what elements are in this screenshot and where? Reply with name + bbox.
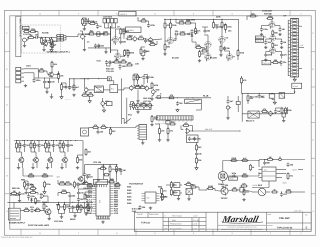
transistor TR1	[42, 40, 47, 46]
resistor R85	[29, 189, 36, 194]
resistor R35b	[73, 84, 80, 91]
capacitor CA1	[48, 39, 55, 43]
svg-text:1M: 1M	[269, 156, 272, 159]
resistor R63	[85, 148, 92, 155]
capacitor C5	[144, 39, 153, 43]
ground O2	[187, 195, 190, 201]
label D2x	[262, 10, 273, 13]
resistor RD3	[272, 42, 279, 48]
resistor R9	[120, 28, 128, 35]
resistor R69	[109, 166, 116, 173]
diode D1a	[187, 33, 191, 36]
potentiometer VRA1	[50, 43, 55, 48]
resistor R81	[250, 164, 256, 171]
connector ladder CON2	[288, 19, 298, 78]
svg-text:C1 470p: C1 470p	[23, 33, 32, 36]
transistor TR2	[48, 71, 54, 78]
relay RL2	[185, 97, 202, 104]
supply label I	[56, 176, 61, 179]
capacitor C40b	[71, 205, 78, 209]
parts J right	[110, 178, 121, 186]
label C4x	[196, 32, 199, 35]
issue box	[303, 214, 311, 230]
resistor R38	[126, 61, 133, 66]
ground tri A	[50, 48, 53, 51]
resistor R71	[108, 178, 115, 183]
svg-text:PRE AMP: PRE AMP	[279, 217, 290, 220]
resistor RO1	[170, 181, 177, 188]
capacitor C26 stage2	[38, 143, 45, 147]
potentiometer VRF6	[136, 102, 146, 109]
valve V2b	[205, 41, 212, 49]
wire R4 tops	[83, 18, 87, 28]
label M8x	[56, 204, 71, 207]
svg-text:TVP4.10-60-02 ISS E PRE AMP: TVP4.10-60-02 ISS E PRE AMP 1/1	[1, 236, 34, 239]
wire RV loop top	[223, 160, 260, 171]
resistor R97	[162, 193, 169, 200]
capacitor CH3	[274, 109, 280, 113]
wire F vol	[103, 98, 107, 109]
label C6x	[228, 30, 232, 33]
resistor R16	[164, 43, 171, 50]
valve V2c	[205, 54, 212, 62]
wire M top3	[75, 184, 94, 189]
svg-text:ECC83: ECC83	[210, 57, 217, 60]
transistor TR9	[220, 186, 228, 195]
svg-text:100n: 100n	[263, 28, 268, 31]
capacitor C4	[119, 40, 126, 44]
capacitor C6b	[94, 44, 100, 48]
svg-text:R56 10k: R56 10k	[143, 97, 152, 100]
valve V3b	[226, 54, 233, 62]
capacitor C14	[48, 80, 55, 84]
resistor RM1	[29, 185, 36, 190]
svg-text:1M: 1M	[147, 50, 150, 53]
resistor R93	[77, 204, 85, 211]
label F2x	[135, 63, 140, 66]
resistor RH6	[285, 107, 293, 114]
ground F mid1	[136, 90, 139, 103]
ground tri F1	[88, 100, 91, 103]
capacitor CF5	[140, 103, 149, 107]
label C5x	[216, 16, 221, 19]
connector CON3	[16, 67, 24, 83]
capacitor C12c	[280, 40, 286, 44]
parts B right low	[140, 47, 150, 60]
resistor RF6	[134, 84, 141, 89]
label F4x	[128, 114, 133, 117]
output jack J3P	[252, 188, 270, 196]
resistor R82	[240, 182, 247, 187]
label H4x	[246, 120, 255, 123]
label M9x	[28, 224, 50, 227]
wire stack A out	[52, 36, 78, 40]
footswitch box J	[93, 179, 107, 184]
capacitor CH1	[280, 60, 287, 64]
capacitor C12b	[264, 40, 271, 44]
svg-text:RELAY 3: RELAY 3	[246, 120, 255, 123]
label F3x	[106, 68, 115, 74]
resistor R28	[237, 49, 245, 56]
resistor R78	[230, 157, 237, 162]
label G2x	[203, 95, 209, 98]
IC4 microcontroller	[93, 182, 114, 216]
label J1x	[93, 161, 102, 164]
resistor R17	[178, 19, 185, 24]
svg-text:1M: 1M	[283, 41, 286, 44]
wire H rail	[242, 93, 295, 94]
wire F boxes	[103, 79, 113, 90]
parts O left	[158, 186, 167, 202]
resistor R5	[85, 18, 92, 25]
resistor RM4	[35, 197, 42, 204]
dark box J	[81, 128, 89, 136]
resistor RD1	[249, 12, 256, 17]
label F5x	[143, 97, 152, 103]
svg-text:TIP32C: TIP32C	[221, 197, 228, 200]
capacitor C9a	[216, 25, 225, 29]
resistor R21	[195, 44, 202, 49]
capacitor C3	[99, 32, 106, 36]
ground under C12d	[264, 58, 267, 61]
resistor R20	[195, 27, 202, 34]
potentiometer VR3b	[149, 37, 154, 43]
label B3	[129, 35, 134, 38]
resistor R14	[127, 49, 135, 56]
wire O mid	[184, 185, 202, 191]
opto coupler box	[94, 86, 103, 93]
svg-text:NOTE 1: NOTE 1	[121, 13, 128, 16]
capacitor C20	[176, 101, 183, 105]
wire C right	[213, 19, 239, 60]
bus dark vertical	[110, 26, 112, 53]
wire V4b legs	[264, 37, 282, 40]
ground J1	[83, 177, 86, 184]
resistor R92	[64, 203, 70, 210]
resistor RH5	[281, 107, 288, 114]
capacitor CB2	[147, 23, 156, 27]
capacitor CM2	[18, 191, 25, 195]
wire C extra	[202, 27, 208, 29]
wire K in	[155, 124, 168, 139]
potentiometer VRF5	[101, 100, 110, 106]
ground stage1	[17, 166, 20, 169]
svg-text:C31 47u: C31 47u	[106, 70, 115, 73]
svg-text:T.03.97: T.03.97	[137, 213, 143, 216]
capacitor C27 stage3	[52, 143, 59, 147]
svg-text:100n: 100n	[180, 30, 185, 33]
capacitor C35	[222, 183, 229, 187]
wire RL2 out	[196, 103, 201, 110]
capacitor CC1	[204, 29, 211, 33]
ground tri F2	[102, 109, 105, 112]
ground F mid2	[150, 94, 153, 101]
box H2	[279, 93, 285, 99]
ground R73	[166, 139, 169, 142]
wire F mid right	[118, 88, 152, 90]
parts P left	[242, 188, 249, 201]
wire I right	[78, 141, 84, 177]
svg-text:R61 10k: R61 10k	[250, 96, 259, 99]
ground F pots	[136, 109, 139, 113]
wire RH2	[241, 76, 243, 93]
wire row B mid	[78, 32, 111, 37]
resistor R50 stage1	[16, 142, 22, 149]
wire F pots row	[135, 107, 151, 109]
wire IC2 pins	[259, 170, 287, 178]
capacitor C42	[120, 168, 126, 172]
ground under CON5	[141, 142, 144, 145]
resistor RB1	[89, 20, 96, 25]
svg-text:TVP4.10: TVP4.10	[141, 222, 151, 225]
capacitor C21	[227, 99, 235, 103]
relay box H3	[248, 111, 259, 118]
resistor R36	[113, 58, 120, 63]
wire CON3 row1	[24, 69, 39, 78]
wire E links	[39, 61, 60, 91]
wire stage2 links	[30, 140, 39, 168]
label box TP1	[255, 36, 263, 39]
capacitor CM3	[83, 206, 92, 210]
Marshall logo	[220, 214, 260, 224]
ground H2	[282, 113, 286, 122]
capacitor C15b	[65, 85, 71, 89]
resistor R15b	[170, 22, 178, 29]
capacitor C7	[191, 29, 198, 33]
svg-text:REG1: REG1	[70, 218, 76, 221]
svg-text:R49 82k: R49 82k	[264, 13, 273, 16]
resistor R90	[34, 207, 41, 212]
resistor R53 stage2	[30, 142, 36, 149]
label B1	[90, 30, 93, 33]
transistor TR7	[77, 176, 83, 182]
ground TR8	[48, 216, 51, 220]
IC5 eeprom	[142, 192, 160, 203]
svg-text:FOOT SW LED1 LED2: FOOT SW LED1 LED2	[28, 224, 50, 227]
transistor TR4 stage2	[32, 157, 38, 164]
input jack J3	[23, 38, 29, 47]
resistor R100	[231, 186, 238, 191]
label O2x	[221, 197, 228, 200]
capacitor C12d	[264, 53, 273, 57]
resistor R102	[285, 188, 292, 193]
resistor R94	[99, 165, 106, 170]
wire B extra2	[137, 17, 148, 23]
resistor R60 stage4	[62, 142, 70, 149]
label box TP2	[255, 39, 263, 42]
wire H top	[271, 60, 281, 66]
label N1x	[97, 179, 101, 182]
resistor RF5	[137, 74, 144, 81]
resistor R26	[220, 45, 227, 52]
wire N left	[79, 189, 93, 205]
resistor R91	[58, 203, 66, 210]
capacitor C38	[27, 194, 36, 198]
ground E col2	[50, 94, 53, 99]
resistor R25b	[225, 23, 233, 30]
resistor R74	[169, 120, 176, 125]
label C3x	[186, 19, 196, 22]
ground under C11	[260, 33, 263, 36]
IC4 pin labels	[83, 183, 120, 215]
resistor R68	[110, 128, 117, 135]
svg-text:RL2: RL2	[186, 97, 189, 100]
resistor R18	[184, 19, 191, 24]
label A2	[42, 32, 49, 35]
svg-text:R75 10k: R75 10k	[93, 161, 102, 164]
margin strip	[16, 16, 21, 57]
resistor RF8	[151, 82, 159, 89]
resistor RA2	[29, 28, 36, 33]
label C1x	[172, 57, 179, 60]
scan footer text	[1, 236, 34, 239]
supply label -15V	[65, 99, 71, 101]
wire row B low	[88, 47, 111, 48]
wire O row	[202, 189, 232, 192]
resistor R1	[27, 34, 34, 39]
svg-text:ECC83: ECC83	[172, 57, 179, 60]
footswitch diagonal	[122, 119, 131, 124]
svg-text:100n: 100n	[30, 195, 35, 198]
relay box RL1	[110, 85, 118, 93]
resistor RM2	[60, 189, 67, 194]
capacitor C29	[97, 130, 104, 134]
box O2a	[174, 183, 180, 188]
capacitor C12	[279, 27, 285, 31]
svg-text:R2 68k: R2 68k	[42, 32, 49, 35]
label box RV1	[229, 177, 238, 181]
wire row B out	[127, 38, 162, 40]
resistor R79	[241, 157, 248, 162]
potentiometer VRF2	[130, 85, 140, 91]
svg-text:220R: 220R	[231, 157, 236, 160]
wire M top2	[58, 180, 72, 186]
capacitor C25 stage1	[23, 143, 30, 147]
transistor TR5 stage3	[47, 157, 53, 164]
wire V1b links	[111, 50, 129, 58]
svg-text:E: E	[306, 226, 308, 229]
potentiometer VRF7	[142, 102, 147, 108]
label box H1	[262, 61, 271, 65]
resistor RO3	[185, 181, 192, 186]
label B4	[87, 41, 90, 44]
box B right	[126, 27, 142, 33]
capacitor CF3	[129, 103, 137, 107]
wire stage4 links	[59, 140, 68, 168]
capacitor C16a	[105, 60, 112, 64]
wire ladder feed	[288, 20, 304, 76]
label M6x	[21, 179, 26, 182]
capacitor CB1	[96, 24, 102, 28]
wire G rail	[155, 97, 211, 98]
label D3x	[264, 13, 273, 16]
drawing number cell	[267, 224, 293, 230]
wire E to F	[69, 78, 90, 85]
resistor RH4	[261, 108, 268, 113]
resistor R73	[167, 127, 174, 134]
resistor R86	[43, 203, 49, 210]
resistor R70	[115, 165, 122, 172]
capacitor C9	[223, 46, 230, 50]
diode DM1	[30, 198, 33, 202]
svg-text:SCREENED CABLE PL1: SCREENED CABLE PL1	[47, 50, 71, 53]
resistor R100a	[207, 185, 214, 190]
capacitor C32	[193, 137, 202, 141]
resistor R89	[23, 207, 30, 212]
ground under R4	[83, 28, 86, 31]
wire H lower links	[259, 108, 285, 114]
box SW3	[107, 102, 113, 106]
wire N top	[98, 169, 121, 183]
wire CON5 drop	[136, 126, 143, 142]
wire V4a legs	[262, 16, 281, 27]
ground under VR5	[226, 117, 229, 120]
capacitor C30	[83, 172, 92, 176]
potentiometer VRH1	[269, 111, 274, 117]
connector stack A	[57, 35, 64, 41]
ground M2	[60, 216, 63, 219]
potentiometer VRF8	[148, 102, 153, 108]
wire G vert1	[227, 96, 229, 117]
svg-text:IC5: IC5	[147, 197, 150, 200]
resistor RF11	[151, 115, 158, 122]
wire RV mid	[227, 172, 259, 176]
resistor R64	[27, 172, 34, 177]
svg-text:R82 10k: R82 10k	[12, 187, 21, 190]
wire F lower right	[131, 102, 153, 117]
ground tri G	[176, 109, 179, 112]
border zone ticks vertical	[5, 51, 316, 193]
ground under C12	[278, 33, 281, 36]
wire stage1 links	[16, 140, 25, 168]
resistor RM11	[82, 180, 89, 185]
svg-text:IC2: IC2	[264, 169, 267, 172]
ground R72	[158, 139, 161, 142]
wire E col	[59, 78, 67, 95]
svg-text:PRODUCTION: PRODUCTION	[170, 223, 182, 226]
resistor RM5	[87, 204, 94, 211]
resistor R56 stage3	[45, 142, 51, 149]
resistor RA1	[23, 28, 30, 33]
reverb transducer RV1	[218, 171, 227, 180]
capacitor C37	[287, 163, 294, 167]
transistor TR6 stage4	[61, 157, 67, 164]
transistor TR8	[44, 208, 51, 216]
sheet cell	[267, 210, 302, 216]
resistor R8	[102, 30, 109, 35]
capacitor C6	[174, 30, 179, 35]
resistor R66	[92, 124, 99, 129]
svg-text:GND: GND	[87, 212, 92, 215]
capacitor CH2	[258, 94, 266, 98]
wire H loop	[242, 93, 287, 121]
capacitor C43	[77, 191, 84, 195]
capacitor C44	[77, 197, 84, 201]
resistor R84	[287, 172, 294, 179]
capacitor C39	[31, 208, 39, 212]
svg-text:1M: 1M	[277, 110, 280, 113]
wire M top1	[25, 181, 29, 191]
resistor R34	[61, 83, 68, 90]
capacitor C30b	[86, 175, 93, 179]
resistor R54 stage2	[33, 142, 40, 149]
resistor RM7	[44, 181, 52, 188]
svg-text:DRN.CHKD: DRN.CHKD	[149, 213, 159, 216]
resistor R22	[201, 47, 208, 52]
wire M row	[20, 209, 45, 212]
wire O cluster1	[166, 181, 182, 193]
ground under R23	[198, 59, 201, 62]
